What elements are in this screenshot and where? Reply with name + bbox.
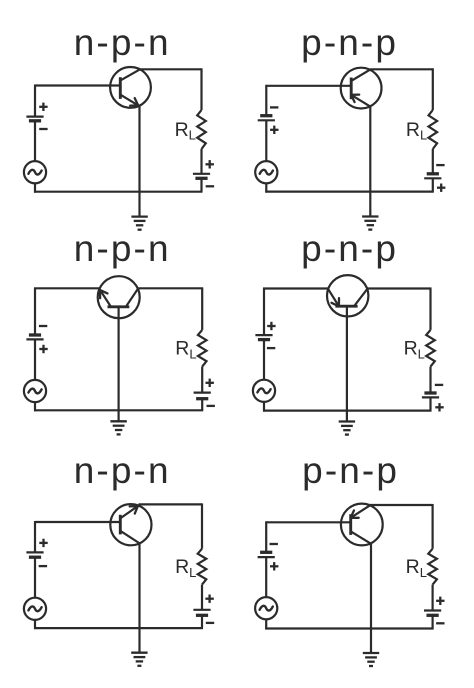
plus label battery V3a bottom bbox=[39, 345, 47, 353]
wire right rail top segment bbox=[138, 287, 204, 289]
wire battery V4a to AC source bbox=[263, 340, 265, 380]
battery V2b (output) bbox=[424, 174, 441, 179]
battery V3b (output) bbox=[194, 393, 211, 399]
battery V6a (input bias) bbox=[258, 552, 275, 557]
wire bottom rail bbox=[265, 191, 434, 193]
wire resistor to battery V6b bbox=[432, 585, 434, 611]
wire AC source to bottom rail bbox=[265, 183, 267, 192]
wire left rail upper segment bbox=[34, 521, 36, 552]
resistor RL circuit 6 bbox=[428, 549, 437, 585]
wire top rail collector of Q6 to load branch bbox=[369, 504, 432, 506]
wire battery V3a to AC source bbox=[34, 339, 36, 380]
minus label battery V5b bottom bbox=[206, 622, 214, 624]
minus label battery V3b bottom bbox=[207, 405, 215, 407]
svg-text:n-p-n: n-p-n bbox=[74, 22, 171, 63]
wire right rail down to resistor bbox=[429, 289, 431, 330]
svg-text:p-n-p: p-n-p bbox=[301, 22, 398, 63]
wire bottom rail bbox=[34, 191, 203, 193]
ac source VS4 bbox=[253, 380, 275, 402]
wire base of Q6 to left rail bbox=[266, 521, 350, 523]
plus label battery V4a top bbox=[267, 322, 275, 330]
battery V1b (output) bbox=[193, 174, 210, 179]
wire right rail to resistor bbox=[200, 68, 202, 110]
wire base of Q1 to left rail bbox=[35, 84, 119, 86]
wire battery V5b to bottom rail bbox=[201, 615, 203, 628]
wire battery V6b to bottom rail bbox=[432, 615, 434, 628]
wire emitter of Q5 down through bottom rail to ground bbox=[138, 543, 140, 653]
minus label battery V6b bottom bbox=[436, 622, 444, 624]
wire AC source to bottom rail bbox=[34, 620, 36, 629]
wire bottom rail bbox=[34, 409, 203, 411]
minus label battery V4a bottom bbox=[267, 347, 275, 349]
transistor Q5 (n-p-n) bbox=[110, 504, 151, 545]
wire battery V6a to AC source bbox=[265, 557, 267, 597]
wire left rail top segment bbox=[34, 287, 100, 289]
wire left rail upper segment bbox=[265, 521, 267, 552]
wire top rail collector of Q5 to load branch bbox=[139, 503, 203, 505]
wire emitter of Q1 down through bottom rail to ground bbox=[138, 106, 140, 217]
battery V2a (input bias) bbox=[258, 116, 275, 121]
wire battery V4b to bottom rail bbox=[429, 397, 431, 410]
ac source VS3 bbox=[24, 380, 46, 402]
svg-text:n-p-n: n-p-n bbox=[74, 450, 171, 491]
svg-text:n-p-n: n-p-n bbox=[74, 228, 171, 269]
minus label battery V4b top bbox=[435, 384, 443, 386]
wire AC source to bottom rail bbox=[265, 619, 267, 629]
ac source VS6 bbox=[255, 597, 277, 619]
plus label battery V2b bottom bbox=[437, 184, 445, 192]
plus label battery V1a top bbox=[39, 103, 47, 111]
wire right rail to resistor bbox=[201, 503, 203, 548]
wire bottom rail bbox=[265, 627, 433, 629]
svg-text:p-n-p: p-n-p bbox=[302, 450, 399, 491]
wire emitter of Q2 down through bottom rail to ground bbox=[369, 106, 371, 216]
resistor RL circuit 3 bbox=[198, 330, 207, 367]
wire bottom rail bbox=[34, 627, 203, 629]
wire left rail top segment bbox=[263, 287, 329, 289]
minus label battery V3a top bbox=[39, 325, 47, 327]
wire battery V2a to AC source bbox=[265, 120, 267, 161]
wire resistor to battery V1b bbox=[200, 149, 202, 174]
minus label battery V2b top bbox=[436, 164, 444, 166]
resistor RL circuit 2 bbox=[429, 110, 438, 149]
minus label battery V2a top bbox=[270, 106, 278, 108]
battery V6b (output) bbox=[424, 611, 441, 616]
ac source VS1 bbox=[24, 161, 46, 183]
wire resistor to battery V5b bbox=[201, 585, 203, 610]
wire left rail upper segment bbox=[265, 85, 267, 116]
battery V5a (input bias) bbox=[26, 552, 43, 557]
wire resistor to battery V4b bbox=[429, 367, 431, 393]
plus label battery V2a bottom bbox=[270, 126, 278, 134]
plus label battery V4b bottom bbox=[435, 403, 443, 411]
minus label battery V5a bottom bbox=[39, 565, 47, 567]
wire top rail collector of Q1 to load branch bbox=[139, 68, 201, 70]
transistor Q1 (n-p-n) bbox=[110, 67, 151, 108]
wire base of Q2 to left rail bbox=[266, 85, 350, 87]
wire left rail down to battery bbox=[34, 288, 36, 335]
wire right rail top segment bbox=[367, 287, 431, 289]
wire base of Q5 to left rail bbox=[35, 521, 119, 523]
wire base of Q4 down through bottom rail to ground bbox=[346, 307, 348, 421]
wire left rail down to battery bbox=[263, 289, 265, 336]
battery V5b (output) bbox=[193, 610, 210, 616]
wire right rail to resistor bbox=[432, 68, 434, 110]
minus label battery V6a top bbox=[270, 543, 278, 545]
minus label battery V1a bottom bbox=[39, 128, 47, 130]
ac source VS5 bbox=[24, 598, 46, 620]
resistor RL circuit 1 bbox=[197, 110, 206, 149]
wire right rail down to resistor bbox=[201, 288, 203, 330]
ground circuit 3 bbox=[110, 421, 126, 434]
transistor Q3 (n-p-n) bbox=[98, 276, 140, 318]
wire emitter of Q6 down through bottom rail to ground bbox=[370, 543, 372, 653]
resistor RL circuit 4 bbox=[426, 330, 435, 367]
resistor RL circuit 5 bbox=[198, 549, 207, 585]
wire resistor to battery V2b bbox=[432, 149, 434, 174]
wire bottom rail bbox=[263, 410, 432, 412]
plus label battery V6b top bbox=[436, 597, 444, 605]
wire resistor to battery V3b bbox=[201, 367, 203, 393]
wire battery V1b to bottom rail bbox=[200, 178, 202, 191]
battery V3a (input bias) bbox=[26, 335, 43, 339]
plus label battery V6a bottom bbox=[270, 562, 278, 570]
wire battery V3b to bottom rail bbox=[201, 399, 203, 411]
transistor Q4 (p-n-p) bbox=[327, 275, 368, 316]
wire battery V1a to AC source bbox=[34, 121, 36, 161]
wire battery V2b to bottom rail bbox=[432, 178, 434, 191]
wire top rail collector of Q2 to load branch bbox=[370, 68, 433, 70]
transistor Q2 (p-n-p) bbox=[341, 68, 382, 109]
minus label battery V1b bottom bbox=[206, 185, 214, 187]
plus label battery V3b top bbox=[206, 379, 214, 387]
battery V4b (output) bbox=[422, 393, 439, 397]
ground circuit 5 bbox=[131, 653, 147, 666]
svg-text:p-n-p: p-n-p bbox=[301, 228, 398, 269]
battery V1a (input bias) bbox=[26, 117, 43, 121]
battery V4a (input bias) bbox=[255, 335, 272, 340]
ground circuit 6 bbox=[363, 653, 379, 666]
plus label battery V5a top bbox=[39, 539, 47, 547]
wire AC source to bottom rail bbox=[34, 402, 36, 411]
ground circuit 2 bbox=[362, 217, 378, 230]
ac source VS2 bbox=[255, 161, 277, 183]
transistor Q6 (p-n-p) bbox=[341, 504, 383, 546]
wire AC source to bottom rail bbox=[34, 183, 36, 193]
plus label battery V5b top bbox=[205, 595, 213, 603]
wire right rail to resistor bbox=[432, 504, 434, 549]
wire base of Q3 down through bottom rail to ground bbox=[117, 308, 119, 422]
wire AC source to bottom rail bbox=[263, 402, 265, 412]
ground circuit 4 bbox=[339, 422, 355, 435]
wire battery V5a to AC source bbox=[34, 557, 36, 598]
wire left rail upper segment bbox=[34, 85, 36, 117]
plus label battery V1b top bbox=[206, 160, 214, 168]
ground circuit 1 bbox=[131, 217, 147, 230]
